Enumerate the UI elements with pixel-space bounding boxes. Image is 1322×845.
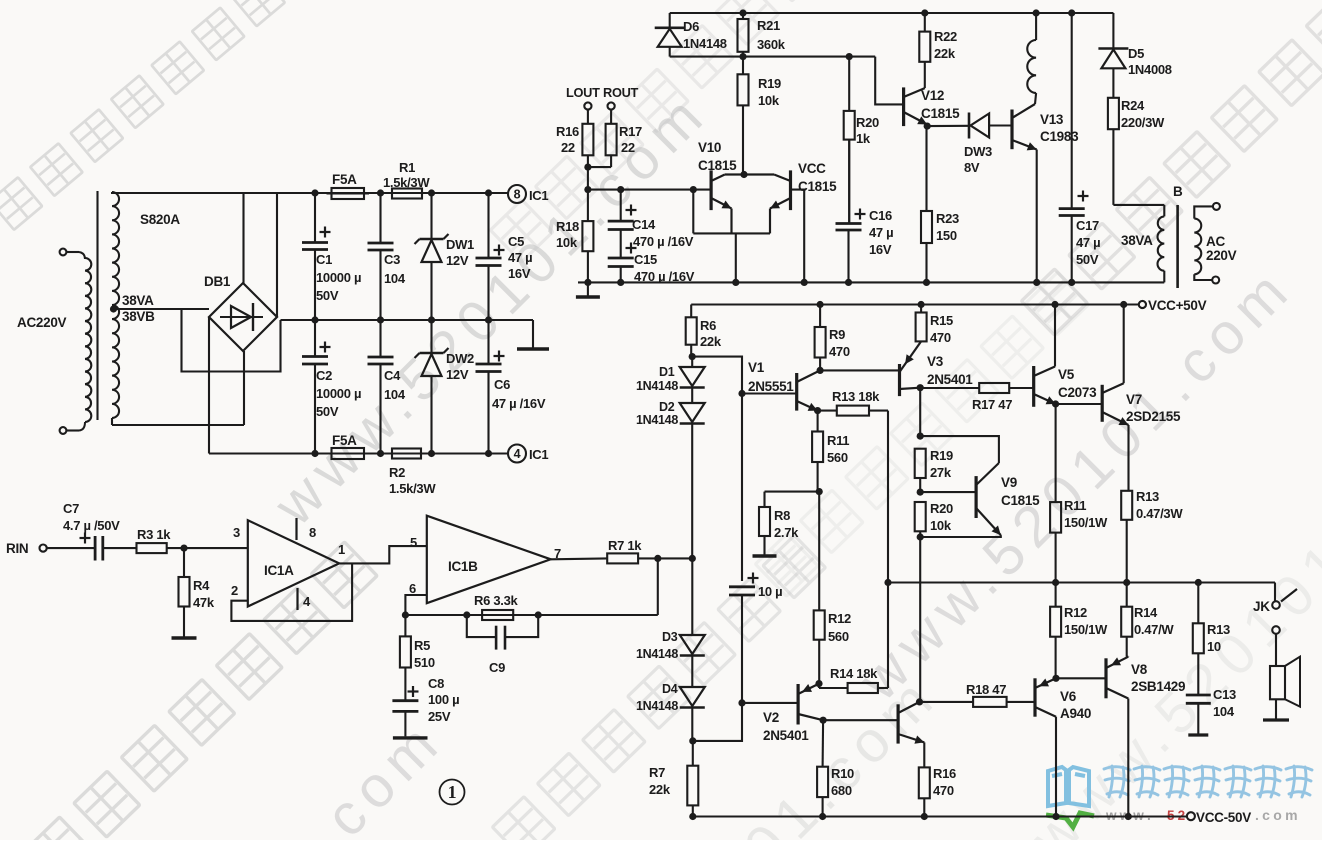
logo green tick [1046, 813, 1094, 827]
svg-text:V5: V5 [1058, 367, 1075, 382]
wire DB1 bottom vertex down [243, 351, 245, 425]
wire V13 emitter down [1036, 150, 1038, 283]
svg-text:R20: R20 [930, 501, 953, 516]
resistor R6 22k [690, 305, 692, 312]
svg-text:C4: C4 [384, 368, 401, 383]
svg-text:560: 560 [828, 629, 849, 644]
svg-text:D3: D3 [662, 630, 678, 644]
svg-text:1N4148: 1N4148 [636, 699, 678, 713]
wire VCC pair base down [791, 190, 805, 283]
svg-text:C16: C16 [869, 208, 892, 223]
terminal LOUT [584, 102, 591, 109]
fuse F5A top [332, 188, 365, 199]
wire centre tap branch to mid rail [182, 309, 281, 372]
svg-text:VCC+50V: VCC+50V [1148, 298, 1207, 313]
wire V2 emitter to R14 [818, 684, 820, 688]
wire DW3 to V13 base [989, 124, 1012, 126]
node V13 emitter bottom [1033, 279, 1040, 286]
svg-text:C6: C6 [494, 377, 510, 392]
diode D1 1N4148 [691, 357, 693, 367]
node DW2 bottom [428, 450, 435, 457]
node R23 bottom [923, 279, 930, 286]
transistor V3 2N5401 [898, 364, 901, 396]
svg-text:LOUT: LOUT [566, 85, 600, 100]
svg-text:R7 1k: R7 1k [608, 538, 642, 553]
capacitor C16 [836, 222, 862, 225]
node centre tap 38V [110, 305, 117, 312]
node V5 emitter [1052, 400, 1059, 407]
svg-text:R18 47: R18 47 [966, 682, 1006, 697]
svg-text:ROUT: ROUT [603, 85, 639, 100]
node C6 bottom [485, 450, 492, 457]
op-amp IC1A [248, 520, 339, 606]
node R6 bottom [689, 353, 696, 360]
wire emitter bar to ground rail [735, 233, 737, 282]
resistor R4 47k [183, 548, 185, 577]
node C17 rail [1068, 9, 1075, 16]
transformer B core [1176, 205, 1179, 288]
zener DW2 12V [430, 320, 432, 353]
svg-text:10000 µ: 10000 µ [316, 386, 361, 401]
resistor R8 2.7k [763, 492, 765, 507]
op-amp IC1B [427, 516, 551, 604]
wire pin2 feedback [231, 563, 352, 621]
node R6 33 left [463, 611, 470, 618]
svg-text:R15: R15 [930, 313, 953, 328]
node V2 emitter [815, 680, 822, 687]
wire second rail [670, 56, 876, 58]
wire V7 emitter down to R13 [1127, 425, 1129, 491]
capacitor C8 100u [392, 699, 418, 702]
wire VCC+50V rail [691, 303, 1139, 305]
svg-text:C13: C13 [1213, 687, 1236, 702]
wire centre tap to bridge left vertex [114, 308, 210, 310]
svg-text:100 µ: 100 µ [428, 692, 459, 707]
svg-text:R12: R12 [1064, 605, 1087, 620]
wire feedback up to R7 node [657, 558, 659, 615]
wire RIN to C7 [47, 547, 95, 549]
wire IC1B out [551, 557, 608, 560]
ground below C8 [393, 736, 428, 739]
node R19 27k top [917, 433, 924, 440]
wire negative bottom rail [209, 452, 508, 454]
svg-text:4.7 µ /50V: 4.7 µ /50V [63, 518, 120, 533]
circled figure 1 [440, 780, 465, 805]
wire V9 emitter loop [920, 535, 1001, 537]
svg-text:R21: R21 [757, 18, 780, 33]
resistor R13 18k [818, 410, 837, 412]
svg-text:IC1: IC1 [529, 447, 548, 462]
node C17 bottom [1068, 279, 1075, 286]
wire R6 node to V1 base [692, 357, 797, 394]
node C1 top [311, 189, 318, 196]
svg-text:C3: C3 [384, 252, 400, 267]
transistor V6 A940 [1033, 678, 1036, 716]
wire control ground rail [578, 281, 1164, 283]
diode D5 1N4008 [1098, 47, 1128, 50]
svg-text:D1: D1 [659, 365, 675, 379]
svg-text:38VB: 38VB [122, 309, 155, 324]
diode D3 1N4148 [691, 558, 693, 635]
svg-text:DB1: DB1 [204, 274, 231, 289]
resistor R17 47 [920, 387, 979, 389]
node V1 emitter [814, 407, 821, 414]
svg-text:12V: 12V [446, 367, 469, 382]
wire join down [587, 167, 589, 190]
resistor R11 150/1W [1050, 502, 1061, 532]
svg-text:1N4148: 1N4148 [636, 379, 678, 393]
node R13 047 bottom [1123, 579, 1130, 586]
transistor V4 driver [896, 704, 899, 743]
svg-text:1N4148: 1N4148 [636, 413, 678, 427]
svg-text:220V: 220V [1206, 248, 1237, 263]
svg-text:10: 10 [1207, 639, 1221, 654]
transistor V9 C1815 [974, 476, 977, 518]
svg-text:150/1W: 150/1W [1064, 515, 1108, 530]
terminal RIN [40, 545, 47, 552]
terminal VCC-50V [1187, 812, 1195, 820]
wire R13 right column [887, 411, 889, 688]
transformer T1 primary coil [79, 252, 85, 259]
node R16 R17 join [584, 164, 591, 171]
svg-text:38VA: 38VA [122, 293, 154, 308]
resistor R7 22k [687, 766, 698, 806]
node R11 bottom [816, 488, 823, 495]
transformer B secondary coil [1194, 206, 1213, 218]
svg-text:R6: R6 [700, 318, 716, 333]
wire R8 branch [765, 491, 820, 493]
svg-text:R19: R19 [758, 76, 781, 91]
node D4 bottom [689, 737, 696, 744]
svg-text:2SD2155: 2SD2155 [1126, 409, 1181, 424]
wire R3 to pin3 [184, 547, 248, 549]
svg-text:150: 150 [936, 228, 957, 243]
svg-text:47 µ /16V: 47 µ /16V [492, 396, 546, 411]
svg-text:V6: V6 [1060, 689, 1077, 704]
node VCC base bottom [801, 279, 808, 286]
svg-text:10k: 10k [930, 518, 952, 533]
wire V4 emitter down to R16 [923, 742, 925, 767]
svg-text:2: 2 [231, 583, 238, 598]
svg-text:C17: C17 [1076, 218, 1099, 233]
svg-text:8: 8 [514, 188, 521, 202]
node R7 1k right [654, 555, 661, 562]
resistor R14 18k [848, 683, 878, 693]
resistor R13 10 [1197, 583, 1199, 624]
node C1 bottom [311, 316, 318, 323]
svg-text:R19: R19 [930, 448, 953, 463]
svg-text:C15: C15 [634, 252, 657, 267]
svg-text:R13: R13 [1136, 489, 1159, 504]
svg-text:R11: R11 [827, 433, 849, 448]
node R18 top [584, 186, 591, 193]
wire DB1 top vertex to rail [242, 193, 244, 283]
svg-text:R1: R1 [399, 160, 415, 175]
capacitor C4 [379, 320, 381, 357]
wire pin6 stub [405, 595, 426, 615]
svg-text:1.5k/3W: 1.5k/3W [389, 481, 436, 496]
resistor R9 470 [819, 305, 821, 328]
ground below R4 [183, 625, 185, 638]
capacitor C1 [314, 193, 316, 243]
resistor R14 047 [1126, 583, 1128, 607]
node C4 bottom [377, 450, 384, 457]
wire V9 base [920, 491, 976, 493]
wire V8 collector down [1127, 699, 1129, 817]
svg-text:D4: D4 [662, 682, 678, 696]
resistor R24 220/3W [1108, 98, 1119, 129]
svg-text:38VA: 38VA [1121, 233, 1153, 248]
svg-text:V10: V10 [698, 140, 721, 155]
zener DW1 12V [430, 193, 432, 239]
svg-text:0.47/W: 0.47/W [1134, 622, 1174, 637]
svg-text:C2: C2 [316, 368, 332, 383]
wire V6 emitter to V8 base [1056, 677, 1106, 679]
capacitor C15 [608, 257, 634, 260]
node R22 top [921, 9, 928, 16]
wire V2 collector down to R10 [822, 720, 825, 767]
svg-text:470: 470 [829, 344, 850, 359]
node DW1 top [428, 189, 435, 196]
ground mid rail [532, 320, 534, 349]
wire emitter join bar [693, 232, 770, 234]
svg-text:B: B [1173, 184, 1183, 199]
svg-text:IC1B: IC1B [448, 559, 478, 574]
svg-text:16V: 16V [508, 266, 531, 281]
svg-text:470: 470 [933, 783, 954, 798]
svg-text:R13: R13 [1207, 622, 1230, 637]
svg-text:47 µ: 47 µ [869, 225, 893, 240]
svg-text:10000 µ: 10000 µ [316, 270, 361, 285]
transistor V13 C1983 [1010, 110, 1013, 150]
wire secondary bottom to bridge bottom [112, 424, 244, 426]
svg-text:V2: V2 [763, 710, 779, 725]
resistor R11 560 [817, 411, 819, 432]
wire vcc top rail [670, 12, 1114, 14]
svg-text:S820A: S820A [140, 212, 180, 227]
node R3 right [180, 545, 187, 552]
transformer T1 primary terminal top [60, 249, 67, 256]
logo book icon [1048, 767, 1089, 806]
svg-text:DW2: DW2 [446, 351, 474, 366]
svg-text:2N5401: 2N5401 [763, 728, 809, 743]
transistor V12 C1815 [902, 87, 905, 126]
node R13 10 top [1195, 579, 1202, 586]
svg-text:F5A: F5A [332, 172, 357, 187]
svg-text:C1983: C1983 [1040, 129, 1079, 144]
svg-text:R17 47: R17 47 [972, 397, 1012, 412]
svg-text:IC1: IC1 [529, 188, 548, 203]
svg-text:470: 470 [930, 330, 951, 345]
resistor R7 1k [607, 553, 638, 563]
svg-text:C2073: C2073 [1058, 385, 1097, 400]
resistor R13 0.47/3W [1121, 491, 1132, 520]
node R6 33 right [535, 611, 542, 618]
wire rail corner to V12 base [875, 57, 903, 105]
wire R20 to C16 [848, 140, 850, 224]
diode D6 1N4148 [669, 13, 671, 27]
svg-text:560: 560 [827, 450, 848, 465]
svg-text:AC220V: AC220V [17, 315, 67, 330]
wire V7 collector up [1123, 305, 1125, 384]
svg-text:R16: R16 [556, 124, 579, 139]
transformer T1 core [96, 191, 98, 420]
svg-text:2N5551: 2N5551 [748, 379, 794, 394]
transistor VCC-pair C1815 [789, 170, 792, 210]
capacitor C9 [467, 615, 496, 637]
svg-text:C7: C7 [63, 501, 79, 516]
resistor R1 1.5k/3W [392, 189, 422, 199]
svg-text:V12: V12 [921, 88, 944, 103]
svg-text:47 µ: 47 µ [508, 250, 532, 265]
svg-text:R7: R7 [649, 765, 665, 780]
node C3 bottom [377, 316, 384, 323]
svg-text:510: 510 [414, 655, 435, 670]
svg-text:47 µ: 47 µ [1076, 235, 1100, 250]
svg-text:2N5401: 2N5401 [927, 372, 973, 387]
wire rail corner to D5 [1112, 13, 1114, 48]
svg-text:VCC-50V: VCC-50V [1196, 810, 1251, 825]
node R21 bottom [739, 53, 746, 60]
svg-text:16V: 16V [869, 242, 892, 257]
resistor R18 47 [920, 701, 974, 703]
wire V8 emitter up to R14 [1127, 656, 1129, 658]
svg-text:R8: R8 [774, 508, 790, 523]
svg-text:R18: R18 [556, 219, 579, 234]
wire V12 emitter to DW3 [927, 125, 969, 127]
node R11 150 bottom [1052, 579, 1059, 586]
wire V1 collector to V3 base [820, 369, 899, 371]
resistor R20 10k [915, 502, 926, 531]
resistor R6 3.3k [482, 610, 513, 620]
svg-text:2.7k: 2.7k [774, 525, 799, 540]
svg-text:D5: D5 [1128, 46, 1144, 61]
transistor V10 C1815 [709, 170, 712, 210]
wire D4 to R7 [692, 741, 694, 766]
node diode column mid [689, 555, 696, 562]
wire C17 column [1071, 13, 1073, 209]
svg-text:1N4008: 1N4008 [1128, 62, 1172, 77]
svg-text:R4: R4 [193, 578, 210, 593]
watermark layer [0, 0, 285, 230]
node DW1 bottom [428, 316, 435, 323]
node V5 collector rail [1051, 301, 1058, 308]
svg-text:R14: R14 [1134, 605, 1158, 620]
svg-text:8: 8 [309, 525, 316, 540]
resistor R20 1k top [848, 57, 850, 111]
node base line branch [690, 186, 697, 193]
diode D4 1N4148 [680, 687, 705, 706]
node V3 collector [917, 384, 924, 391]
svg-text:0.47/3W: 0.47/3W [1136, 506, 1183, 521]
svg-text:10k: 10k [758, 93, 780, 108]
bridge rectifier DB1 [209, 283, 277, 351]
svg-text:220/3W: 220/3W [1121, 115, 1165, 130]
resistor R15 470 [920, 305, 922, 313]
wire V10 base line [588, 189, 711, 191]
node output rail left [884, 579, 891, 586]
svg-text:50V: 50V [316, 288, 339, 303]
transistor V7 2SD2155 [1101, 385, 1104, 422]
svg-text:22k: 22k [934, 46, 956, 61]
svg-text:R17: R17 [619, 124, 642, 139]
svg-text:A940: A940 [1060, 706, 1091, 721]
node emitter bar bottom [732, 279, 739, 286]
capacitor C17 [1059, 207, 1085, 210]
svg-text:C1815: C1815 [921, 106, 960, 121]
svg-text:50V: 50V [1076, 252, 1099, 267]
wire V5 emitter to V7 base [1056, 403, 1103, 405]
transistor V5 C2073 [1032, 366, 1035, 407]
capacitor C2 [314, 320, 316, 357]
svg-text:R22: R22 [934, 29, 957, 44]
svg-text:R14 18k: R14 18k [830, 666, 878, 681]
capacitor C3 [379, 193, 381, 243]
node C3 top [377, 189, 384, 196]
svg-text:470 µ /16V: 470 µ /16V [633, 234, 694, 249]
svg-text:360k: 360k [757, 37, 786, 52]
node R20 branch [846, 53, 853, 60]
node C16 bottom [845, 279, 852, 286]
svg-text:104: 104 [1213, 704, 1235, 719]
resistor R16 22 [587, 110, 589, 124]
node C5 bottom [485, 316, 492, 323]
svg-text:R6 3.3k: R6 3.3k [474, 593, 519, 608]
wire R17 bottom join [588, 166, 611, 168]
svg-text:RIN: RIN [6, 541, 28, 556]
svg-text:V9: V9 [1001, 475, 1017, 490]
svg-text:C8: C8 [428, 676, 444, 691]
svg-text:1: 1 [338, 542, 345, 557]
node C15 bottom [617, 279, 624, 286]
node R16 bottom rail [921, 813, 928, 820]
svg-text:2SB1429: 2SB1429 [1131, 679, 1185, 694]
svg-text:C14: C14 [632, 217, 656, 232]
svg-text:1: 1 [448, 782, 457, 802]
node V10 collector R19 [740, 171, 747, 178]
svg-text:C1: C1 [316, 252, 332, 267]
ground below R18 [587, 282, 589, 297]
svg-text:DW1: DW1 [446, 237, 474, 252]
svg-text:6: 6 [409, 581, 416, 596]
svg-text:8V: 8V [964, 160, 980, 175]
resistor R10 680 [817, 767, 828, 797]
pin circle 4 IC1 [508, 445, 526, 463]
svg-text:AC: AC [1206, 234, 1225, 249]
svg-text:R3 1k: R3 1k [137, 527, 171, 542]
wire IC1A out to IC1B pin5 [339, 546, 427, 563]
node V2 collector [820, 717, 827, 724]
svg-text:V13: V13 [1040, 112, 1064, 127]
svg-text:150/1W: 150/1W [1064, 622, 1108, 637]
node R18 bottom [584, 279, 591, 286]
svg-text:25V: 25V [428, 709, 451, 724]
logo text 家电维修资料网 [1104, 766, 1312, 797]
svg-text:27k: 27k [930, 465, 952, 480]
wire V1 base column down [741, 394, 743, 582]
svg-text:22k: 22k [649, 782, 671, 797]
terminal VCC+50V [1139, 301, 1146, 308]
svg-text:C1815: C1815 [698, 158, 737, 173]
svg-text:R12: R12 [828, 611, 851, 626]
svg-text:104: 104 [384, 387, 406, 402]
node V6 emitter [1052, 675, 1059, 682]
transformer T1 secondary coil [112, 192, 119, 418]
ground below C13 [1188, 733, 1208, 736]
svg-text:R16: R16 [933, 766, 956, 781]
resistor R2 1.5k/3W [392, 449, 421, 459]
transformer B primary coil [1163, 205, 1165, 217]
